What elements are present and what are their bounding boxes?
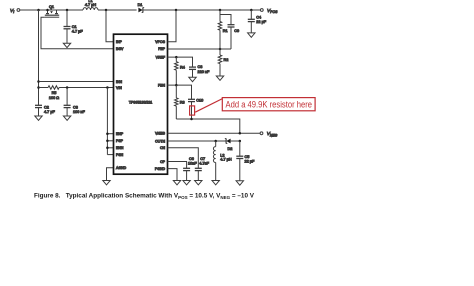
svg-text:PSP: PSP xyxy=(116,139,124,143)
node junction Q1 source xyxy=(46,9,49,12)
node junction rail/INN xyxy=(37,80,40,83)
node junction PSP xyxy=(106,140,109,143)
wire ENN stub xyxy=(107,147,113,149)
capacitor C1 xyxy=(66,10,68,27)
wire VPOS stub up to rail xyxy=(168,10,177,42)
node junction EN rail tap xyxy=(106,86,109,89)
node junction top rail at left rail xyxy=(37,9,40,12)
wire EN rail xyxy=(106,88,108,155)
node junction ENP xyxy=(106,132,109,135)
output terminal VPOS xyxy=(260,9,263,12)
svg-text:OUTN: OUTN xyxy=(155,139,165,143)
svg-text:100 Ω: 100 Ω xyxy=(49,96,59,100)
capacitor C2 xyxy=(35,104,42,106)
svg-text:CN: CN xyxy=(160,146,166,150)
svg-text:4.7 µH: 4.7 µH xyxy=(220,158,232,162)
svg-text:VPOS: VPOS xyxy=(267,8,278,14)
node junction VNEG node xyxy=(239,132,242,135)
wire top rail L1 to D1 xyxy=(98,9,137,11)
ground below C3 xyxy=(63,116,70,120)
node junction VREF/R4 xyxy=(175,56,178,59)
svg-text:VI: VI xyxy=(10,8,14,14)
wire top rail D1 to VPOS terminal xyxy=(144,9,261,11)
svg-text:BGV: BGV xyxy=(116,47,124,51)
node junction INP tap xyxy=(105,9,108,12)
svg-text:C2: C2 xyxy=(44,106,49,110)
input terminal VI xyxy=(17,9,20,12)
ground PGND xyxy=(173,181,180,185)
wire PSN stub xyxy=(107,154,113,156)
capacitor C9 xyxy=(228,24,235,26)
ground below L2 xyxy=(212,181,219,185)
capacitor C10 xyxy=(188,98,195,100)
inductor L1 xyxy=(83,8,98,10)
node junction C10 bottom xyxy=(190,118,193,121)
svg-text:C5: C5 xyxy=(245,155,250,159)
svg-text:R4: R4 xyxy=(180,65,185,69)
wire PGND to ground xyxy=(168,169,178,181)
svg-text:CP: CP xyxy=(160,160,166,164)
ground AGND xyxy=(103,181,110,185)
node junction FBN/R3/R4 xyxy=(175,84,178,87)
diode D2 (schottky, pointing left) xyxy=(225,138,231,143)
node junction VPOS tap xyxy=(175,9,178,12)
svg-text:VNEG: VNEG xyxy=(155,132,165,136)
svg-text:R2: R2 xyxy=(224,58,229,62)
diode D1 (schottky) xyxy=(138,7,144,12)
wire ENP stub xyxy=(107,133,113,135)
ground below C5 xyxy=(236,181,243,185)
svg-text:22 µF: 22 µF xyxy=(256,20,266,24)
capacitor C8 xyxy=(189,66,196,68)
svg-text:TPS65130/131: TPS65130/131 xyxy=(129,100,152,104)
svg-text:C3: C3 xyxy=(73,106,78,110)
op-amp U1 IC TPS65130 xyxy=(114,34,168,174)
output terminal VNEG xyxy=(260,132,263,135)
annotation red callout box xyxy=(222,98,315,111)
wire FBN line xyxy=(168,85,192,99)
svg-text:PSN: PSN xyxy=(116,153,124,157)
wire gate of Q1 to BGV pin xyxy=(41,17,114,49)
annotation red resistor box xyxy=(190,106,195,115)
resistor R3 xyxy=(175,85,177,98)
svg-text:R1: R1 xyxy=(223,29,228,33)
svg-text:Add a 49.9K resistor here: Add a 49.9K resistor here xyxy=(226,99,313,110)
svg-text:VNEG: VNEG xyxy=(267,131,278,137)
svg-text:INP: INP xyxy=(116,40,123,44)
resistor R5 xyxy=(39,87,49,89)
svg-text:PGND: PGND xyxy=(155,167,166,171)
wire CN line xyxy=(168,148,199,169)
svg-text:4.7 µH: 4.7 µH xyxy=(85,3,97,7)
svg-text:AGND: AGND xyxy=(116,166,127,170)
ground below R2 xyxy=(216,76,223,80)
wire CP line xyxy=(168,162,187,169)
svg-text:C6: C6 xyxy=(189,157,194,161)
node junction ENN xyxy=(106,147,109,150)
node junction C3 tap xyxy=(66,86,69,89)
wire FB bottom line to VNEG node xyxy=(176,119,240,133)
svg-text:R3: R3 xyxy=(180,100,185,104)
ground below C7 xyxy=(195,181,202,185)
svg-text:INN: INN xyxy=(116,80,123,84)
capacitor C6 xyxy=(183,167,190,169)
ground below C8 xyxy=(189,77,196,81)
wire OUTN line xyxy=(168,140,226,142)
ground below C2 xyxy=(35,116,42,120)
capacitor C4 xyxy=(250,10,252,19)
wire VNEG line xyxy=(168,132,261,134)
svg-text:4.7nF: 4.7nF xyxy=(199,161,209,165)
wire INN line xyxy=(39,81,114,83)
resistor R4 xyxy=(175,57,177,62)
node junction R1 tap xyxy=(219,9,222,12)
svg-text:Q1: Q1 xyxy=(49,5,54,9)
svg-text:D2: D2 xyxy=(228,147,233,151)
wire VREF line xyxy=(168,57,193,67)
annotation red leader line xyxy=(195,99,222,113)
node junction C4 tap xyxy=(250,9,253,12)
svg-text:C10: C10 xyxy=(196,99,203,103)
svg-text:4.7 µF: 4.7 µF xyxy=(72,29,84,33)
node junction OUTN/L2 xyxy=(214,140,217,143)
resistor R2 xyxy=(219,49,221,55)
svg-text:ENN: ENN xyxy=(116,146,124,150)
svg-text:Figure 8. Typical Applicatio: Figure 8. Typical Application Schematic … xyxy=(34,193,255,200)
capacitor C5 xyxy=(239,141,241,156)
wire FBP line xyxy=(168,48,232,50)
svg-text:C7: C7 xyxy=(200,157,205,161)
svg-text:VPOS: VPOS xyxy=(155,40,165,44)
svg-text:VIN: VIN xyxy=(116,86,122,90)
wire INP branch xyxy=(106,10,114,42)
svg-text:4.7 µF: 4.7 µF xyxy=(44,110,56,114)
capacitor C3 xyxy=(66,88,68,106)
svg-text:22 µF: 22 µF xyxy=(245,160,255,164)
svg-text:10nF: 10nF xyxy=(188,161,197,165)
svg-text:C1: C1 xyxy=(72,25,77,29)
svg-text:100 nF: 100 nF xyxy=(73,110,86,114)
svg-text:C9: C9 xyxy=(234,29,239,33)
capacitor C7 xyxy=(195,167,202,169)
wire R1-C9 top stub xyxy=(220,15,231,25)
svg-text:FBP: FBP xyxy=(158,47,165,51)
svg-text:220 nF: 220 nF xyxy=(198,70,211,74)
ground below C1 xyxy=(63,43,70,47)
node junction FBP/R1/R2 xyxy=(219,48,222,51)
wire PSP stub xyxy=(107,140,113,142)
ground below C4 xyxy=(248,33,255,37)
wire AGND to ground xyxy=(107,168,114,181)
svg-text:ENP: ENP xyxy=(116,132,124,136)
wire left rail VI down xyxy=(38,10,40,105)
transistor Q1 xyxy=(45,10,59,17)
svg-text:FBN: FBN xyxy=(158,84,165,88)
svg-text:C8: C8 xyxy=(198,65,203,69)
svg-text:R5: R5 xyxy=(52,91,57,95)
svg-text:D1: D1 xyxy=(138,3,143,7)
node junction rail/VIN xyxy=(37,86,40,89)
resistor R1 with cap C9 parallel xyxy=(219,10,221,22)
wire top rail from VI to L1 xyxy=(20,9,83,11)
ground below C6 xyxy=(183,181,190,185)
svg-text:VREF: VREF xyxy=(156,56,165,60)
inductor L2 xyxy=(215,141,217,147)
svg-text:C4: C4 xyxy=(256,15,261,19)
node junction D2 anode / VNEG vertical xyxy=(239,140,242,143)
node junction C1 tap xyxy=(66,9,69,12)
